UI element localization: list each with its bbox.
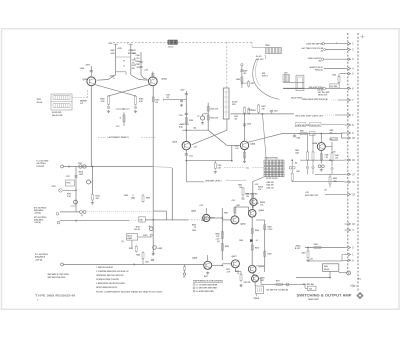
- svg-text:C396: C396: [166, 94, 170, 96]
- svg-text:( AUTOMATIC RESET ): ( AUTOMATIC RESET ): [108, 136, 130, 139]
- svg-text:SEE: SEE: [262, 73, 265, 75]
- svg-text:R464: R464: [255, 229, 259, 232]
- svg-text:(C): (C): [122, 241, 125, 243]
- svg-text:C458: C458: [239, 239, 243, 242]
- svg-text:+25V (A): +25V (A): [35, 258, 43, 261]
- svg-text:R394: R394: [135, 60, 139, 63]
- svg-text:R459: R459: [225, 245, 229, 248]
- svg-text:+125V: +125V: [268, 229, 274, 231]
- svg-text:2. CLAMPED RESISTORS FOR DUAL: 2. CLAMPED RESISTORS FOR DUAL 1/2: [96, 270, 128, 273]
- svg-text:+GATE SEL SWP PULSE OUT: +GATE SEL SWP PULSE OUT: [296, 124, 321, 127]
- svg-text:C434: C434: [247, 123, 251, 126]
- svg-text:DL305 50Ω: DL305 50Ω: [52, 112, 62, 114]
- svg-text:SWP SECTIONS (THIS: SWP SECTIONS (THIS: [48, 277, 67, 279]
- svg-text:R450: R450: [146, 197, 150, 200]
- svg-text:120K: 120K: [79, 174, 84, 176]
- svg-text:4.7-2.5: 4.7-2.5: [134, 57, 139, 60]
- svg-text:3: 3: [37, 299, 38, 301]
- svg-text:PICKOFF: PICKOFF: [37, 166, 46, 168]
- svg-text:+ALT TRACE SYNC PULSE: +ALT TRACE SYNC PULSE: [301, 47, 324, 50]
- svg-text:R311: R311: [67, 183, 71, 185]
- svg-text:TD401: TD401: [265, 44, 270, 47]
- svg-text:50Ω: 50Ω: [232, 104, 236, 106]
- svg-text:DELAY LINE: DELAY LINE: [52, 114, 63, 117]
- svg-text:56B/35-N SWP: 56B/35-N SWP: [308, 299, 319, 301]
- svg-text:R398: R398: [189, 120, 193, 122]
- svg-text:+HORIZ PLUG-IN: +HORIZ PLUG-IN: [309, 67, 323, 69]
- svg-text:SWITCHING & OUTPUT AMP: SWITCHING & OUTPUT AMP: [297, 294, 353, 298]
- svg-text:+25V (A): +25V (A): [34, 211, 41, 214]
- svg-text:-150V: -150V: [85, 64, 91, 66]
- svg-text:Q474: Q474: [259, 265, 265, 268]
- svg-text:+SWP LOCKOUT: +SWP LOCKOUT: [307, 58, 322, 60]
- svg-text:TYPE 56B R535/35-N: TYPE 56B R535/35-N: [35, 294, 75, 298]
- svg-text:OF MAN SYSTEM TO ALTER.: OF MAN SYSTEM TO ALTER.: [96, 278, 120, 281]
- svg-text:C384: C384: [80, 67, 84, 70]
- svg-text:FRONT PANEL SEE NOTE.: FRONT PANEL SEE NOTE.: [96, 286, 118, 289]
- svg-text:+GATE SEL SWP (A): +GATE SEL SWP (A): [306, 43, 323, 46]
- svg-text:DL 401: DL 401: [256, 55, 262, 58]
- svg-text:<1> 101 SWP B AMPLIFIER: <1> 101 SWP B AMPLIFIER: [196, 283, 218, 286]
- svg-text:R323: R323: [129, 248, 133, 250]
- svg-text:P+1 S/A TRIGG: P+1 S/A TRIGG: [35, 253, 48, 256]
- svg-text:R381: R381: [110, 50, 114, 52]
- svg-text:DL430: DL430: [232, 101, 237, 104]
- svg-text:TRIGG OUT: TRIGG OUT: [318, 94, 328, 96]
- svg-text:T305: T305: [78, 163, 82, 165]
- svg-text:.001: .001: [234, 118, 237, 120]
- svg-text:NOTE 2: NOTE 2: [262, 76, 268, 78]
- svg-text:Q384: Q384: [82, 78, 88, 81]
- svg-text:2X1 5X 10X 20X: 2X1 5X 10X 20X: [266, 178, 278, 180]
- svg-text:P+1 15A 786D: P+1 15A 786D: [37, 160, 49, 163]
- svg-text:DLY TRIG: DLY TRIG: [330, 86, 338, 88]
- svg-text:220: 220: [246, 196, 249, 198]
- svg-text:AUX SWP OUT: AUX SWP OUT: [305, 194, 319, 197]
- svg-text:R474: R474: [255, 247, 259, 250]
- svg-text:AVAILABLE: AVAILABLE: [35, 256, 46, 259]
- svg-text:D311: D311: [52, 186, 56, 188]
- svg-text:NE-23: NE-23: [127, 235, 132, 237]
- svg-text:R436: R436: [252, 109, 256, 112]
- svg-text:+12V: +12V: [194, 147, 198, 149]
- svg-text:1. SWR GHT ADJUST.: 1. SWR GHT ADJUST.: [96, 266, 114, 269]
- svg-text:+225V: +225V: [128, 50, 134, 52]
- svg-text:C437: C437: [274, 110, 278, 113]
- svg-text:Q463: Q463: [241, 223, 247, 226]
- svg-text:NOTE: COMPONENT VALUES SAME AS: NOTE: COMPONENT VALUES SAME AS 5B42 PLUG…: [96, 290, 163, 293]
- svg-text:S/A TRIGG: S/A TRIGG: [37, 162, 47, 165]
- svg-text:R452: R452: [192, 224, 196, 227]
- svg-text:R314: R314: [79, 171, 83, 174]
- svg-text:R393: R393: [155, 99, 159, 101]
- svg-text:+12V: +12V: [332, 152, 336, 154]
- svg-text:R437: R437: [262, 105, 266, 108]
- svg-text:3. BRACKETED VALUES INCLUDES: 3. BRACKETED VALUES INCLUDES: [96, 282, 126, 285]
- svg-text:OPERATION, SEE PLUG SECTION: OPERATION, SEE PLUG SECTION: [96, 274, 124, 277]
- svg-text:C311: C311: [66, 176, 70, 178]
- svg-text:REG B/D SWP GATE OUT: REG B/D SWP GATE OUT: [296, 114, 325, 117]
- svg-text:SWP AMPL'S CONT FROM: SWP AMPL'S CONT FROM: [48, 273, 70, 276]
- svg-text:Q464: Q464: [259, 209, 265, 212]
- svg-text:C394: C394: [135, 54, 139, 57]
- svg-text:+25V (A): +25V (A): [34, 221, 41, 224]
- svg-text:.001: .001: [166, 97, 169, 99]
- svg-text:C450: C450: [124, 194, 128, 197]
- svg-text:<3> HORIZ AMPLIFIER: <3> HORIZ AMPLIFIER: [196, 290, 215, 293]
- svg-text:<2> 4B75 SWP AMPLIFIER: <2> 4B75 SWP AMPLIFIER: [196, 287, 218, 290]
- svg-text:R465: R465: [268, 226, 272, 229]
- svg-text:.001: .001: [136, 67, 139, 69]
- svg-text:+DELAYED TRIGG: +DELAYED TRIGG: [308, 86, 323, 89]
- svg-text:MAIN TRACE SEPN PULSE (B): MAIN TRACE SEPN PULSE (B): [302, 98, 328, 101]
- svg-text:50Ω T401: 50Ω T401: [256, 58, 264, 61]
- svg-text:C393: C393: [179, 115, 183, 117]
- svg-text:DL305: DL305: [168, 46, 173, 48]
- svg-text:SIG AL: SIG AL: [134, 228, 141, 231]
- svg-text:7: 7: [356, 286, 357, 288]
- svg-text:Q473: Q473: [232, 255, 238, 258]
- svg-text:OUT: OUT: [80, 103, 83, 105]
- svg-text:SIG IN: SIG IN: [37, 102, 43, 104]
- svg-text:C395: C395: [135, 64, 139, 66]
- svg-text:C452: C452: [192, 229, 196, 232]
- svg-text:R475: R475: [268, 253, 272, 256]
- svg-text:R391 68K: R391 68K: [128, 53, 136, 55]
- svg-text:TRIG: TRIG: [37, 99, 42, 101]
- svg-text:Q394: Q394: [161, 78, 167, 81]
- svg-text:+B+: +B+: [183, 277, 186, 279]
